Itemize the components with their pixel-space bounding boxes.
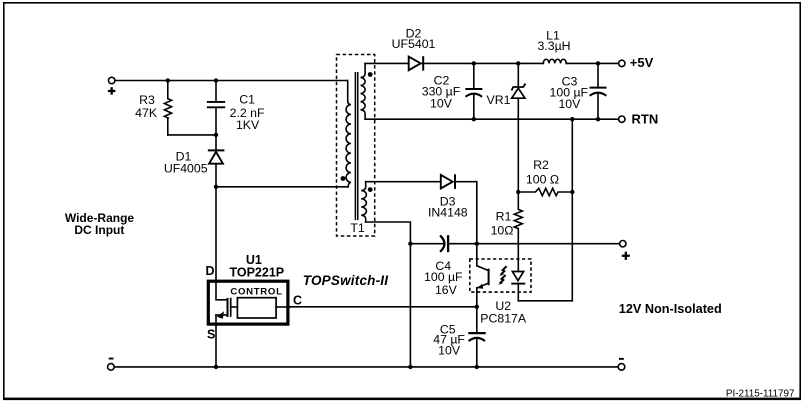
svg-text:10V: 10V — [438, 344, 461, 358]
label pin S — [207, 328, 215, 342]
resistor R1 — [514, 192, 522, 259]
transformer T1 secondary winding — [361, 63, 366, 119]
wire D1 node to primary bottom — [216, 186, 348, 188]
terminal +5V — [619, 60, 625, 66]
node junction R2 right — [570, 190, 574, 194]
node junction 12V node — [475, 242, 479, 246]
svg-text:VR1: VR1 — [487, 93, 511, 107]
U1 control block rectangle — [237, 298, 276, 318]
node junction C3 bottom — [596, 117, 600, 121]
label R1 value — [491, 209, 514, 237]
terminal + input positive — [109, 77, 115, 83]
wire 5V rail — [421, 62, 618, 64]
svg-text:16V: 16V — [435, 283, 458, 297]
wire D1 node down to U1 drain — [215, 187, 217, 281]
inductor L1 — [543, 59, 566, 63]
op-amp U1 TOPSwitch box — [208, 281, 288, 324]
svg-text:UF5401: UF5401 — [392, 37, 436, 51]
label D2 value — [392, 26, 436, 51]
primary phase dot — [341, 176, 346, 181]
label +5V — [630, 55, 654, 70]
label C2 value — [422, 73, 461, 110]
label 12V Non-Isolated — [619, 302, 722, 316]
svg-text:UF4005: UF4005 — [164, 162, 208, 176]
svg-text:C: C — [293, 293, 302, 307]
label RTN — [632, 112, 659, 127]
svg-text:PI-2115-111797: PI-2115-111797 — [726, 388, 795, 399]
node junction C2 top — [472, 61, 476, 65]
node junction source bottom — [214, 365, 218, 369]
label C1 value — [230, 93, 265, 132]
label 12V minus sign — [619, 358, 624, 360]
svg-text:IN4148: IN4148 — [428, 205, 468, 219]
wire RTN to R2 right — [571, 119, 573, 192]
svg-text:S: S — [207, 328, 215, 342]
svg-text:10V: 10V — [558, 97, 581, 111]
optocoupler phototransistor — [477, 244, 489, 307]
svg-text:47K: 47K — [135, 106, 158, 120]
bias phase dot — [368, 187, 373, 192]
node junction D1 bottom — [214, 185, 218, 189]
label U2 — [480, 299, 527, 325]
node junction R2 left / node A — [516, 190, 520, 194]
diode D1 — [209, 135, 224, 187]
terminal 12V plus — [620, 241, 626, 247]
svg-text:C1: C1 — [239, 93, 255, 107]
node junction R3 top — [166, 78, 170, 82]
U1 MOSFET — [216, 281, 228, 367]
label 12V plus sign — [622, 252, 630, 260]
svg-text:+5V: +5V — [630, 55, 654, 70]
svg-text:RTN: RTN — [632, 112, 659, 127]
label R3 value — [135, 93, 158, 120]
U1 control to C pin wire — [276, 306, 289, 308]
label input minus sign — [109, 358, 114, 360]
label T1 — [350, 221, 365, 235]
node junction bias bottom rail — [408, 365, 412, 369]
svg-text:12V Non-Isolated: 12V Non-Isolated — [619, 302, 722, 316]
wire bias bottom drop — [366, 222, 411, 367]
wire LED cathode to R2 right — [518, 192, 572, 301]
U1 MOSFET gate — [231, 299, 238, 316]
diode D3 — [441, 175, 455, 189]
svg-text:10V: 10V — [430, 96, 453, 110]
svg-text:100 µF: 100 µF — [424, 270, 463, 284]
svg-text:PC817A: PC817A — [480, 311, 527, 325]
terminal - input negative — [108, 364, 115, 371]
resistor R2 — [518, 188, 572, 195]
wire R3 bottom to C1 bottom — [168, 134, 216, 136]
svg-text:R2: R2 — [533, 158, 549, 172]
node junction C1 bottom — [214, 133, 218, 137]
svg-text:DC Input: DC Input — [74, 223, 124, 237]
secondary phase dot — [368, 72, 373, 77]
zener diode VR1 — [512, 63, 525, 192]
node junction VR1 top — [516, 61, 520, 65]
terminal - 12V negative — [618, 364, 625, 371]
resistor R3 — [164, 81, 171, 135]
capacitor C3 — [591, 63, 606, 119]
transformer T1 primary winding — [346, 81, 351, 187]
label D1 value — [164, 149, 208, 175]
node junction C1 top — [214, 78, 218, 82]
optocoupler LED — [512, 259, 524, 301]
capacitor C2 — [466, 63, 481, 119]
label pin D — [205, 264, 214, 278]
diode D2 — [409, 57, 424, 71]
wire 12V output — [477, 243, 620, 245]
svg-text:D: D — [205, 264, 214, 278]
optocoupler U2 dashed box — [470, 259, 531, 292]
svg-text:TOP221P: TOP221P — [229, 266, 284, 280]
svg-text:10Ω: 10Ω — [491, 223, 514, 237]
wire D3 to 12V node — [455, 182, 477, 244]
node junction C2 bottom — [472, 117, 476, 121]
label PI number — [726, 388, 795, 399]
node junction C pin — [475, 305, 479, 309]
svg-text:T1: T1 — [350, 221, 365, 235]
svg-text:TOPSwitch-II: TOPSwitch-II — [303, 273, 388, 288]
label L1 value — [537, 28, 570, 53]
label C3 value — [550, 75, 589, 111]
svg-text:CONTROL: CONTROL — [230, 287, 282, 298]
node junction C3 top — [596, 61, 600, 65]
label pin C — [293, 293, 302, 307]
transformer T1 dashed box — [337, 55, 375, 237]
capacitor C1 — [208, 81, 224, 135]
wire bottom rail — [114, 366, 618, 368]
node junction C4 left — [408, 242, 412, 246]
wire top input rail — [115, 80, 348, 82]
svg-text:1KV: 1KV — [236, 118, 260, 132]
transformer core — [355, 73, 357, 220]
capacitor C4 — [410, 236, 476, 251]
node junction C5 bottom rail — [475, 365, 479, 369]
label Wide-Range DC Input — [65, 211, 135, 237]
label + input plus sign — [108, 87, 116, 95]
wire bias top to D3 — [366, 181, 441, 183]
label CONTROL — [230, 287, 282, 298]
optocoupler light arrows — [498, 267, 506, 285]
label R2 value — [526, 158, 559, 186]
svg-text:R1: R1 — [496, 209, 512, 223]
label D3 value — [428, 195, 468, 220]
transformer T1 bias winding — [361, 182, 366, 222]
svg-text:3.3µH: 3.3µH — [537, 39, 570, 53]
svg-text:100 Ω: 100 Ω — [526, 172, 559, 186]
wire RTN rail — [365, 118, 618, 120]
label VR1 — [487, 93, 511, 107]
wire secondary top to D2 — [365, 62, 408, 64]
label U1 — [229, 253, 284, 280]
wire C pin to U1 — [289, 306, 476, 308]
label C5 value — [433, 322, 465, 357]
label TOPSwitch-II — [303, 273, 388, 288]
capacitor C5 — [469, 307, 484, 367]
terminal RTN — [619, 116, 625, 122]
node junction RTN drop — [570, 117, 574, 121]
label C4 value — [424, 259, 463, 297]
